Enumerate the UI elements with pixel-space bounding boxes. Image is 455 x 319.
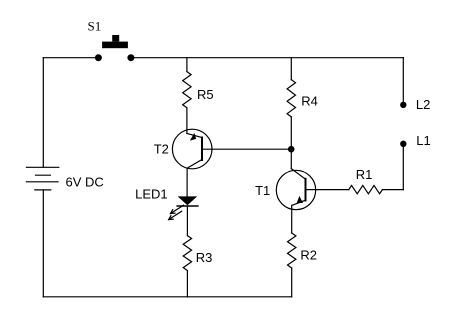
wire T2 base to node <box>203 148 291 150</box>
wire R5 top lead <box>186 58 188 72</box>
wire left rail upper (to battery +) <box>42 58 44 168</box>
wire LED1 to R3 <box>186 206 188 236</box>
transistor T2 (PNP) <box>172 129 212 169</box>
svg-text:LED1: LED1 <box>135 187 168 202</box>
terminal L1 <box>400 141 406 147</box>
transistor T1 (PNP) <box>276 169 315 210</box>
svg-text:T2: T2 <box>154 142 169 157</box>
wire node to T1 collector <box>290 149 292 168</box>
wire R2 to bottom rail <box>291 268 293 297</box>
svg-text:R4: R4 <box>301 94 318 109</box>
wire top rail right segment <box>131 57 403 59</box>
svg-text:R2: R2 <box>300 248 317 263</box>
svg-text:R5: R5 <box>197 87 214 102</box>
battery B1 6V <box>26 167 58 190</box>
wire bottom rail <box>43 296 291 298</box>
resistor R3 <box>183 236 191 271</box>
wire R4 to node <box>290 117 292 149</box>
node junction dot <box>288 146 295 153</box>
wire T1 base to R1 <box>307 189 349 191</box>
wire T1 emitter to R2 <box>291 205 293 233</box>
svg-text:L1: L1 <box>416 133 430 148</box>
wire top rail left segment <box>43 57 98 59</box>
resistor R5 <box>183 72 191 108</box>
svg-text:L2: L2 <box>416 97 430 112</box>
wire R5 to T2 emitter <box>186 108 188 134</box>
LED LED1 <box>169 196 198 219</box>
wire T2 collector to LED1 <box>186 168 188 196</box>
wire R4 top lead <box>290 58 292 80</box>
svg-text:R3: R3 <box>196 250 213 265</box>
svg-text:S1: S1 <box>88 19 102 34</box>
wire right rail top (rail to L2) <box>402 58 404 105</box>
wire left rail lower (battery - to bottom rail) <box>42 190 44 297</box>
wire R3 to bottom rail <box>186 271 188 297</box>
resistor R2 <box>288 233 296 268</box>
wire right rail L1 lead <box>402 144 404 190</box>
terminal L2 <box>400 102 406 108</box>
resistor R1 <box>349 185 383 193</box>
resistor R4 <box>287 80 295 117</box>
switch S1 <box>95 35 134 61</box>
svg-text:6V DC: 6V DC <box>66 174 104 189</box>
svg-text:T1: T1 <box>255 183 270 198</box>
svg-text:R1: R1 <box>356 167 373 182</box>
wire R1 to right rail <box>382 189 403 191</box>
